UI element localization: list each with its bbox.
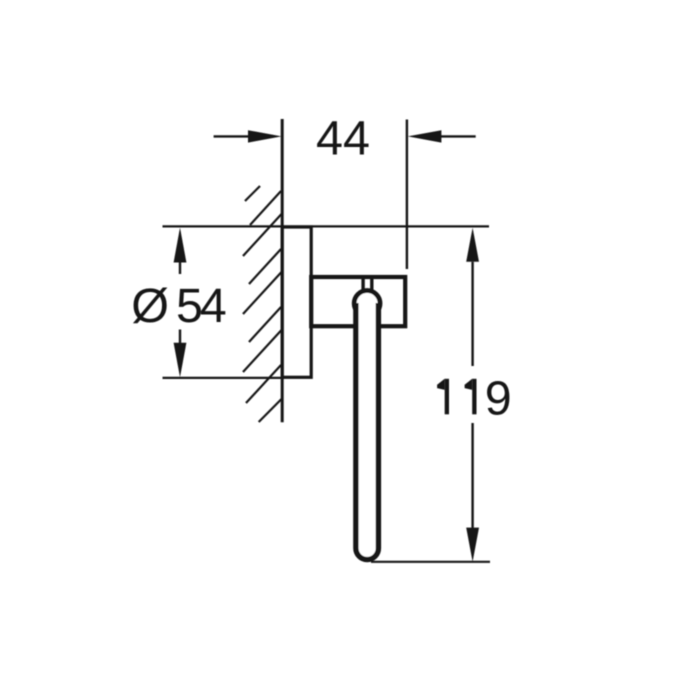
dimension 119: upper arrowhead [466, 228, 479, 262]
dimension Ø54: lower arrowhead [174, 343, 187, 378]
wall hatch stroke 1 (short, top) [245, 186, 260, 201]
wall hatch stroke 7 [243, 330, 282, 372]
label 119: digit 1 (second) [465, 379, 477, 415]
wall hatch stroke 5 [243, 272, 282, 314]
dimension 119: lower arrowhead [466, 528, 479, 562]
extension line Ø54 top [163, 225, 490, 227]
dimension 44: left arrow tail [214, 135, 250, 137]
extension line Ø54 bottom [163, 377, 285, 379]
dimension 44: right arrow tail [441, 135, 476, 137]
pivot knuckle ball [354, 291, 380, 317]
dimension Ø54: lower shaft [179, 330, 181, 344]
dimension Ø54: upper arrowhead [174, 228, 187, 263]
dimension 119: upper shaft [471, 262, 473, 366]
dimension 119: lower shaft [471, 423, 473, 528]
extension line for 44 (right) [406, 120, 408, 270]
wall line [281, 119, 284, 422]
baseline extension for 119 [371, 561, 490, 563]
dimension 44: right arrowhead [408, 130, 442, 142]
holder arm (side view) [311, 277, 405, 326]
wall hatch stroke 6 [249, 307, 281, 342]
mounting plate (side view) [282, 227, 311, 377]
pivot pin left line [361, 276, 364, 292]
svg-text:Ø 54: Ø 54 [131, 279, 226, 333]
dimension Ø54: upper shaft [179, 262, 181, 274]
svg-text:9: 9 [485, 371, 512, 425]
svg-text:44: 44 [316, 111, 370, 165]
label 119: digit 1 (first) [437, 379, 449, 415]
dimension 44: left arrowhead [248, 130, 282, 142]
wall hatch stroke 9 (bottom) [259, 399, 282, 422]
wall hatch stroke 8 [246, 365, 281, 403]
pivot pin right line [370, 276, 373, 292]
paper-holder ring (side view loop) [356, 303, 379, 560]
wall hatch stroke 3 [243, 214, 282, 256]
wall hatch stroke 2 [250, 191, 281, 225]
wall hatch stroke 4 [249, 249, 281, 284]
